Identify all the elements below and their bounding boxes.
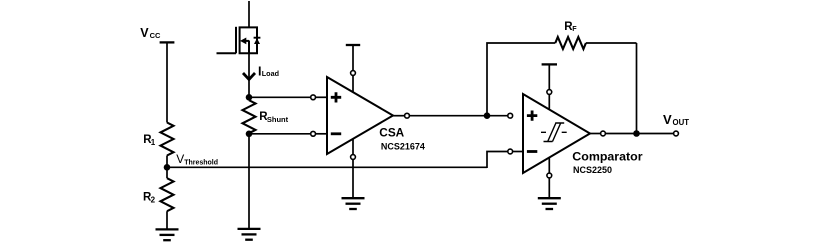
- ground below R2: [156, 229, 179, 240]
- svg-text:Load: Load: [262, 69, 279, 78]
- terminal circle comparator output: [601, 131, 606, 136]
- terminal circle CSA output: [405, 113, 410, 118]
- wire VCC to R1: [166, 42, 168, 122]
- terminal circle comparator plus input: [508, 113, 513, 118]
- junction node at Vthreshold: [164, 164, 171, 171]
- op-amp U1 plus sign: [331, 92, 341, 102]
- wire comparator supply bottom: [548, 158, 550, 173]
- wire shunt down to ground: [248, 134, 250, 229]
- resistor RF: [555, 37, 586, 49]
- node comparator supply bar: [542, 63, 557, 65]
- wire Vthreshold riser: [487, 152, 508, 169]
- svg-text:CC: CC: [150, 31, 161, 40]
- svg-text:V: V: [663, 112, 672, 127]
- svg-text:Shunt: Shunt: [267, 115, 289, 124]
- wire comparator to ground: [548, 179, 550, 199]
- comparator U2 minus sign: [527, 150, 537, 153]
- wire CSA plus stub: [316, 96, 327, 98]
- terminal circle CSA supply bottom: [351, 155, 356, 160]
- svg-text:Comparator: Comparator: [572, 149, 642, 163]
- op-amp U1 minus sign: [331, 132, 341, 135]
- node VCC terminal bar: [160, 41, 175, 43]
- wire comparator minus stub: [513, 151, 524, 153]
- wire CSA supply into triangle: [352, 76, 354, 92]
- junction node feedback tap: [484, 112, 491, 119]
- svg-text:NCS21674: NCS21674: [381, 142, 425, 152]
- wire comparator output stub: [590, 133, 600, 135]
- transistor Q1: [217, 27, 261, 54]
- comparator U2 plus sign: [527, 111, 537, 121]
- resistor R2: [161, 178, 174, 211]
- terminal circle CSA plus input: [311, 95, 316, 100]
- wire Vthreshold horizontal: [167, 166, 487, 168]
- node CSA supply bar: [346, 44, 360, 46]
- resistor R1: [161, 123, 174, 156]
- junction node shunt bottom: [246, 131, 253, 138]
- svg-text:CSA: CSA: [379, 126, 404, 140]
- svg-text:1: 1: [151, 138, 156, 147]
- terminal circle comparator supply bottom: [547, 173, 552, 178]
- wire comparator supply into triangle: [548, 95, 550, 109]
- comparator U2 hysteresis symbol: [541, 123, 567, 142]
- ground below CSA: [342, 198, 365, 209]
- terminal circle CSA minus input: [311, 131, 316, 136]
- junction node output tap: [633, 130, 640, 137]
- wire shunt top to CSA plus: [249, 96, 310, 98]
- wire CSA output to comparator: [410, 115, 508, 117]
- svg-text:V: V: [140, 26, 149, 40]
- wire R1 to R2: [166, 156, 168, 179]
- junction node shunt top: [246, 94, 253, 101]
- terminal circle comparator minus input: [508, 149, 513, 154]
- resistor RShunt: [243, 100, 256, 133]
- svg-text:Threshold: Threshold: [184, 159, 218, 166]
- wire comparator supply top: [548, 64, 550, 89]
- ground below shunt: [238, 229, 261, 240]
- terminal circle VOUT: [674, 131, 679, 136]
- wire feedback right vertical: [636, 43, 638, 134]
- wire CSA output stub: [393, 115, 404, 117]
- svg-text:OUT: OUT: [673, 118, 690, 127]
- wire feedback left vertical: [487, 43, 555, 113]
- svg-text:V: V: [176, 152, 184, 166]
- wire Q1 source to shunt: [248, 53, 250, 97]
- ground below comparator: [538, 198, 561, 209]
- comparator U2 triangle: [523, 94, 590, 173]
- wire CSA supply top: [352, 45, 354, 70]
- wire CSA supply bottom: [352, 139, 354, 154]
- op-amp U1 CSA triangle: [327, 77, 393, 154]
- terminal circle CSA supply top: [351, 71, 356, 76]
- svg-text:NCS2250: NCS2250: [573, 165, 612, 175]
- wire CSA to ground: [352, 160, 354, 198]
- arrow ILoad: [243, 73, 255, 79]
- terminal circle comparator supply top: [547, 90, 552, 95]
- wire shunt bottom to CSA minus: [249, 133, 310, 135]
- wire CSA minus stub: [316, 133, 327, 135]
- svg-text:2: 2: [151, 195, 156, 204]
- wire R2 to ground: [166, 211, 168, 229]
- wire comparator output to VOUT: [606, 133, 673, 135]
- svg-text:F: F: [572, 24, 577, 33]
- wire feedback right: [586, 42, 637, 44]
- transistor Q1 drain wire: [248, 1, 250, 27]
